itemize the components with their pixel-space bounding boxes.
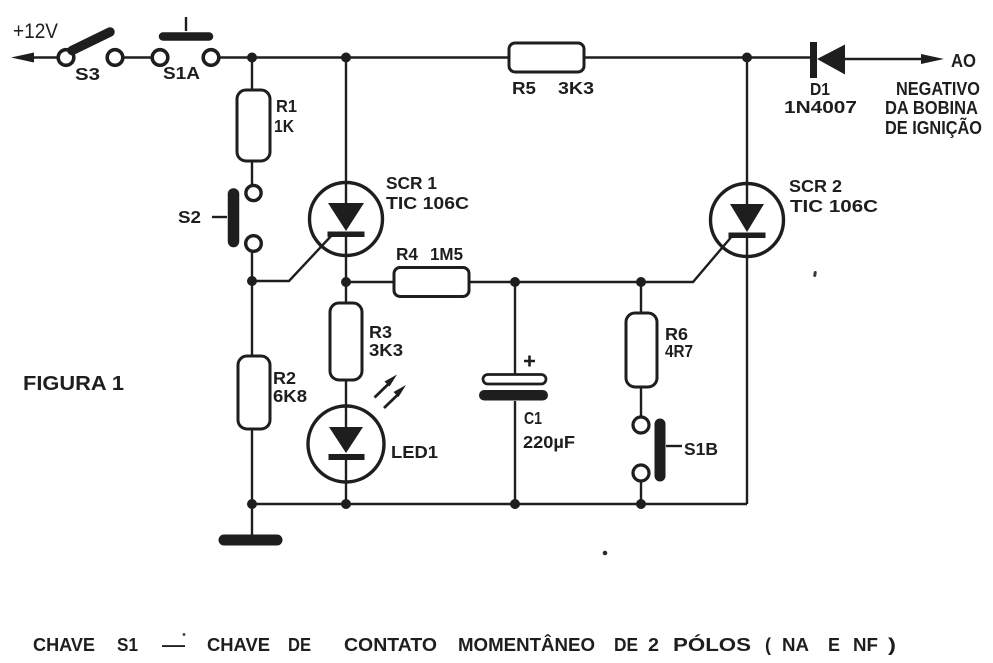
wire SCR1 cathode to R4: [346, 281, 394, 283]
wire S1B to bottom rail: [640, 481, 642, 504]
thyristor SCR1 TIC106C: [310, 58, 470, 283]
speck (scan artifact near bottom rail): [603, 551, 608, 556]
resistor R4 1M5: [394, 244, 469, 297]
svg-text:SCR 2: SCR 2: [789, 176, 842, 196]
svg-text:1N4007: 1N4007: [784, 97, 857, 117]
svg-text:S3: S3: [75, 64, 100, 84]
node junction LED1: [341, 499, 351, 509]
svg-text:6K8: 6K8: [273, 386, 307, 406]
node junction R1 branch: [247, 53, 257, 63]
node junction C1 branch: [510, 277, 520, 287]
wire D1 to AO arrow: [845, 54, 944, 64]
svg-text:CHAVES1—CHAVEDECONTATOMOMENTÂN: CHAVES1—CHAVEDECONTATOMOMENTÂNEODE2PÓLOS…: [33, 634, 896, 655]
wire R1 to S2 top contact: [251, 161, 253, 187]
wire R4 to C1 node: [469, 281, 641, 283]
svg-text:D1: D1: [810, 79, 830, 99]
speck (scan artifact above caption dash): [183, 633, 186, 636]
svg-text:R3: R3: [369, 322, 392, 342]
switch S1B: [633, 417, 718, 481]
svg-text:LED1: LED1: [391, 442, 438, 462]
resistor R6 4R7: [626, 313, 693, 387]
svg-text:220µF: 220µF: [523, 432, 575, 452]
LED1: [308, 406, 438, 504]
svg-text:S2: S2: [178, 207, 201, 227]
svg-text:R53K3: R53K3: [512, 78, 594, 98]
svg-text:TIC 106C: TIC 106C: [790, 196, 878, 216]
svg-text:1K: 1K: [274, 116, 294, 136]
svg-text:SCR 1: SCR 1: [386, 173, 437, 193]
LED1 light arrows: [375, 375, 407, 409]
wire gate of SCR2: [641, 235, 733, 282]
node FIGURA 1 label: [23, 372, 124, 395]
node junction gate SCR1: [247, 276, 257, 286]
wire R6 to S1B: [640, 387, 642, 417]
diode D1 1N4007: [784, 42, 857, 117]
wire R6 branch: [640, 282, 642, 313]
resistor R2 6K8: [238, 356, 307, 429]
svg-text:R2: R2: [273, 368, 296, 388]
capacitor C1 220uF: [479, 356, 575, 453]
wire top rail: [219, 56, 509, 58]
wire C1 node to C1: [514, 282, 516, 374]
wire gate of SCR1: [252, 234, 333, 281]
svg-text:R1: R1: [276, 96, 297, 116]
svg-text:DE IGNIÇÃO: DE IGNIÇÃO: [885, 117, 982, 138]
resistor R5 3K3: [509, 43, 594, 98]
svg-text:C1: C1: [524, 408, 542, 428]
svg-text:AO: AO: [951, 51, 976, 71]
switch S1A: [152, 17, 219, 83]
ground: [224, 504, 277, 540]
node junction R2 / ground: [247, 499, 257, 509]
node +12V label: [13, 20, 58, 43]
speck (scan artifact right of R4 rail): [813, 271, 817, 277]
svg-text:4R7: 4R7: [665, 341, 693, 361]
svg-text:S1B: S1B: [684, 439, 718, 459]
node junction C1: [510, 499, 520, 509]
wire top rail to R1: [251, 58, 253, 91]
svg-text:+12V: +12V: [13, 20, 58, 43]
svg-text:FIGURA 1: FIGURA 1: [23, 372, 124, 395]
svg-text:R41M5: R41M5: [396, 244, 463, 264]
node junction R6 branch: [636, 277, 646, 287]
node junction S1B: [636, 499, 646, 509]
wire gate node to R2: [251, 281, 253, 356]
svg-text:DA BOBINA: DA BOBINA: [885, 98, 978, 118]
resistor R3 3K3: [330, 303, 403, 380]
node junction SCR2 branch: [742, 53, 752, 63]
wire R5 to D1: [584, 56, 810, 58]
node AO NEGATIVO DA BOBINA DE IGNIÇÃO: [885, 51, 982, 138]
svg-text:3K3: 3K3: [369, 340, 403, 360]
resistor R1 1K: [237, 90, 297, 161]
switch S3: [58, 32, 123, 84]
svg-text:NEGATIVO: NEGATIVO: [896, 79, 980, 99]
node caption CHAVE S1: [33, 634, 896, 655]
wire R4 node to R3: [345, 282, 347, 303]
wire S3 to S1A: [123, 56, 152, 58]
wire C1 to bottom rail: [514, 401, 516, 504]
thyristor SCR2 TIC106C: [711, 58, 879, 505]
node junction SCR1 branch: [341, 53, 351, 63]
wire R2 to bottom rail: [251, 429, 253, 504]
svg-text:TIC 106C: TIC 106C: [386, 193, 469, 213]
node junction SCR1 cathode / R4 / R3: [341, 277, 351, 287]
svg-text:S1A: S1A: [163, 63, 200, 83]
wire +12V arrow lead: [11, 53, 58, 63]
switch S2: [178, 185, 261, 251]
wire S2 to gate node: [251, 250, 253, 281]
wire R3 to LED1: [345, 380, 347, 427]
wire bottom rail: [252, 503, 747, 505]
